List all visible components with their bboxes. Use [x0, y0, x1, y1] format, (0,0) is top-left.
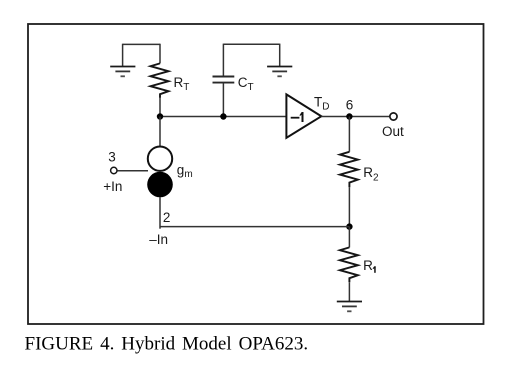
svg-text:+In: +In: [103, 179, 122, 194]
wire: RT bottom lead to node: [159, 98, 161, 117]
svg-text:R: R: [363, 258, 373, 273]
op-amp buffer TD (gain -1 triangle): [286, 94, 321, 137]
wire: ground riser left: [122, 44, 124, 66]
ground (bottom, for R1): [337, 302, 362, 312]
transconductance gm: filled circle: [147, 172, 173, 198]
wire: node down to R1: [348, 227, 350, 248]
wire: +In to gm junction: [118, 170, 149, 172]
wire: CT top lead: [222, 44, 224, 76]
Out terminal circle: [390, 113, 397, 120]
resistor RT: [151, 63, 169, 98]
label -1: [291, 112, 304, 122]
wire: ground riser right: [279, 44, 281, 66]
svg-text:6: 6: [346, 97, 354, 112]
wire: top-middle horizontal from CT to right ground riser: [223, 43, 279, 45]
svg-text:Out: Out: [382, 124, 404, 139]
wire: top-left horizontal from ground riser to RT: [123, 43, 160, 45]
wire: amp output to Out terminal: [321, 116, 389, 118]
+In terminal circle, pin 3: [111, 167, 117, 173]
wire: -In horizontal to R1-R2 node: [160, 226, 349, 228]
resistor R2: [340, 152, 358, 187]
wire: R1 bottom lead to ground: [348, 282, 350, 301]
svg-text:2: 2: [163, 210, 171, 225]
capacitor CT: [213, 77, 235, 83]
node at CT bottom: [220, 113, 226, 119]
figure border frame: [28, 24, 484, 324]
ground (right, for CT): [267, 67, 292, 77]
svg-text:FIGURE 4. Hybrid Model OPA623.: FIGURE 4. Hybrid Model OPA623.: [25, 334, 309, 355]
wire: gm bottom down to -In corner: [159, 197, 161, 229]
wire: RT top lead: [159, 44, 161, 64]
node R1-R2 junction: [346, 223, 352, 229]
wire: CT bottom lead to node: [222, 83, 224, 117]
wire: R2 bottom to mid node: [348, 187, 350, 226]
transconductance gm: open circle: [148, 147, 172, 171]
wire: main horizontal bus RT node to amp input: [160, 116, 286, 118]
ground (left, for RT): [110, 67, 135, 77]
svg-text:3: 3: [108, 150, 116, 165]
wire: node 6 down to R2: [348, 117, 350, 152]
node at RT bottom: [157, 113, 163, 119]
svg-text:–In: –In: [149, 232, 168, 247]
wire: bus node down to gm top: [159, 117, 161, 147]
resistor R1: [340, 247, 358, 282]
node 6 junction dot: [346, 113, 352, 119]
